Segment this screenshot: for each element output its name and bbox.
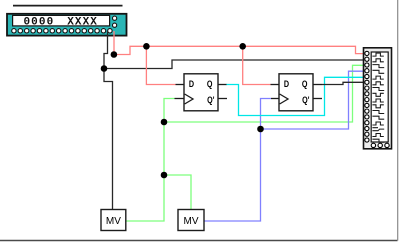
flip-flop U2 clock triangle	[185, 94, 193, 104]
flip-flop U2 pin Q' stub	[218, 98, 227, 100]
display unit U1 side pins	[113, 16, 117, 27]
node E junction	[161, 119, 168, 126]
wire black node A to switch pin 2	[104, 60, 365, 69]
canvas edge bottom	[0, 240, 398, 242]
svg-text:Q': Q'	[207, 95, 214, 105]
flip-flop U3 pin Q stub	[313, 84, 322, 86]
wire red node D to FF2 D	[243, 46, 271, 84]
monostable MV1 body	[101, 210, 126, 231]
svg-text:D: D	[189, 79, 194, 89]
switch block J1 switch glyphs	[372, 53, 384, 142]
switch block J1 bottom pins	[371, 143, 389, 147]
canvas edge right	[397, 0, 399, 241]
wire blue MV2 to node G to FF2 clock	[204, 99, 271, 222]
svg-text:MV: MV	[184, 216, 199, 227]
flip-flop U3 pin CLK stub	[271, 98, 279, 100]
svg-text:D: D	[284, 79, 289, 89]
display unit U1 body	[7, 14, 127, 36]
svg-text:Q': Q'	[302, 95, 309, 105]
wire blue node G to switch pin 4	[261, 71, 366, 129]
flip-flop U3 pin Q' stub	[313, 98, 322, 100]
wire black FF2 Q to switch pin 6	[322, 82, 365, 84]
wire red display to node B	[113, 31, 115, 55]
flip-flop U2 body	[184, 74, 218, 111]
svg-text:XXXX: XXXX	[67, 17, 98, 29]
node A junction	[101, 65, 108, 72]
flip-flop U2 pin CLK stub	[175, 98, 185, 100]
switch block J1 body	[364, 48, 392, 149]
svg-text:Q: Q	[207, 79, 213, 89]
flip-flop U3 pin D stub	[271, 84, 280, 86]
display unit U1 bottom pin row	[12, 29, 112, 33]
node D junction	[239, 43, 246, 50]
wire red node B to switch pin 1	[114, 46, 365, 54]
wire red node C to FF1 D	[146, 46, 175, 84]
wire black display to node A and MV1	[104, 31, 113, 210]
svg-text:0000: 0000	[23, 17, 54, 29]
node B junction	[111, 51, 118, 58]
svg-text:Q: Q	[302, 79, 308, 89]
switch block J1 left pin column	[365, 51, 369, 142]
monostable MV2 body	[178, 210, 204, 231]
node C junction	[143, 43, 150, 50]
flip-flop U2 pin Q stub	[218, 84, 227, 86]
wire green node F to MV2 top	[164, 175, 191, 210]
wire top black above display	[13, 5, 123, 7]
svg-text:MV: MV	[106, 216, 121, 227]
display unit U1 window	[13, 15, 110, 28]
switch block J1 inner panel	[371, 52, 388, 142]
flip-flop U2 pin D stub	[176, 84, 185, 86]
node F junction	[161, 172, 168, 179]
wire green node E to switch pin 3	[164, 65, 365, 122]
wire cyan FF1 Q to switch pin 5	[226, 77, 365, 115]
flip-flop U3 clock triangle	[280, 94, 288, 104]
wire green FF1 clock to node E down to MV1	[126, 99, 175, 222]
flip-flop U3 body	[279, 74, 313, 111]
node G junction	[257, 126, 264, 133]
